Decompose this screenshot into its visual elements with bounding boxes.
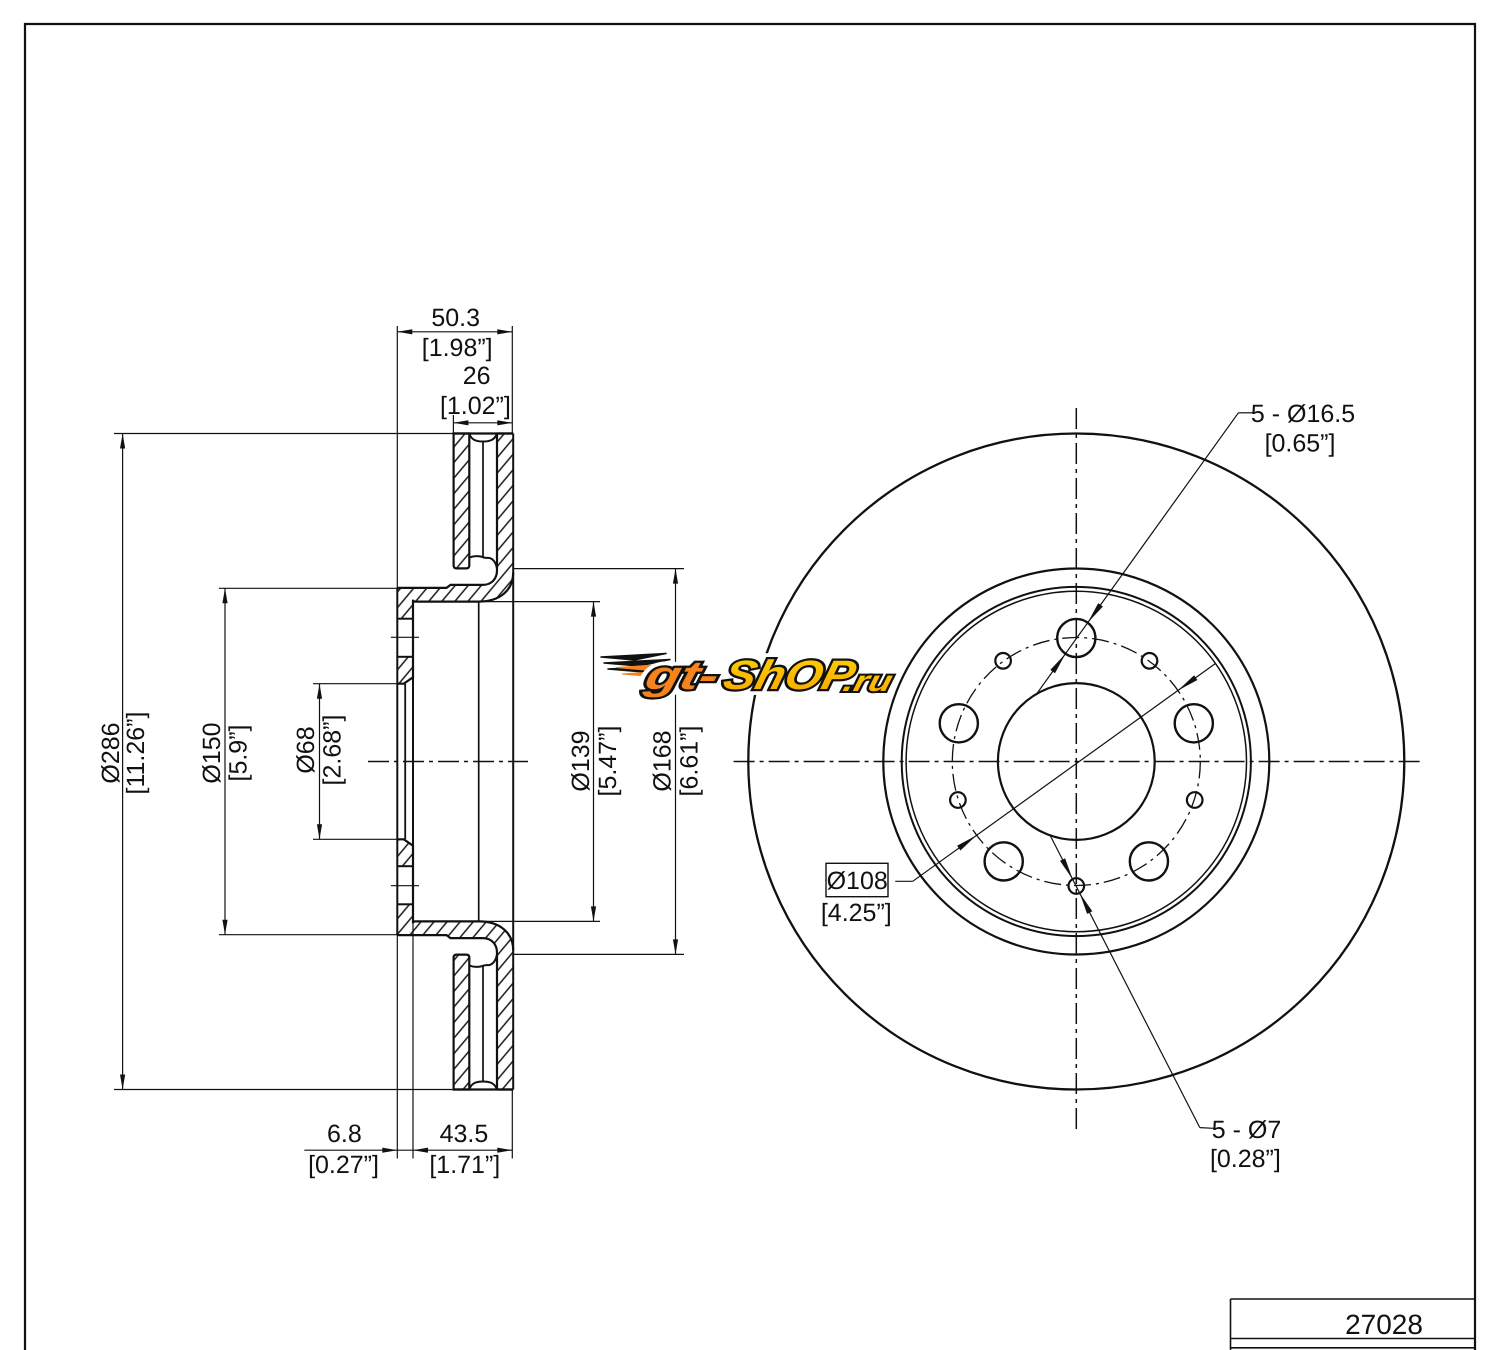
section bolt hole centre tick (lower)	[391, 885, 419, 887]
section vent vane silhouette line (upper)	[482, 442, 484, 557]
label Ø108 boxed	[826, 863, 888, 896]
svg-text:Ø68: Ø68	[292, 726, 320, 773]
svg-text:[11.26”]: [11.26”]	[122, 712, 150, 795]
svg-text:26: 26	[463, 362, 491, 390]
section hub flange inner face line	[412, 602, 414, 922]
section outboard pad hatched fill (upper)	[454, 434, 470, 569]
logo text gt-ShOP.ru	[640, 652, 900, 698]
svg-text:[2.68”]: [2.68”]	[319, 715, 347, 786]
svg-text:.ru: .ru	[840, 666, 896, 698]
front view small hole Ø7 at 342 deg	[1187, 792, 1203, 808]
front view bolt hole Ø16.5 at 90 deg	[1057, 619, 1095, 657]
logo speed lines	[601, 654, 681, 678]
svg-text:[1.98”]: [1.98”]	[422, 334, 493, 362]
front view outer circle Ø286	[748, 434, 1404, 1090]
svg-text:5 - Ø7: 5 - Ø7	[1212, 1116, 1281, 1144]
svg-text:[0.27”]: [0.27”]	[308, 1151, 379, 1179]
dimension Ø168 / [6.61”] band inner diameter	[513, 568, 684, 570]
dimension 26 / [1.02”] disc thickness	[452, 415, 454, 434]
section bore chamfer silhouette line	[404, 684, 406, 840]
section vent vane silhouette line (lower)	[482, 967, 484, 1082]
front view bolt hole Ø16.5 at 234 deg	[985, 842, 1023, 880]
front view braking band inner circle Ø168	[883, 569, 1269, 955]
svg-text:Ø150: Ø150	[198, 722, 226, 783]
svg-text:[0.65”]: [0.65”]	[1265, 430, 1336, 458]
svg-text:[4.25”]: [4.25”]	[821, 899, 892, 927]
front view small hole Ø7 at 198 deg	[950, 792, 966, 808]
front view bolt hole Ø16.5 at 306 deg	[1130, 842, 1168, 880]
front view centre bore circle Ø68	[998, 683, 1155, 840]
svg-text:[1.02”]: [1.02”]	[440, 392, 511, 420]
front view bolt hole Ø16.5 at 162 deg	[940, 704, 978, 742]
section bolt hole centre tick (upper)	[391, 636, 419, 638]
dimension 50.3 / [1.98”] overall width	[396, 326, 398, 588]
svg-text:[1.71”]: [1.71”]	[429, 1151, 500, 1179]
dimension Ø150 / [5.9”] hat diameter	[219, 587, 397, 589]
section hub flange segment below bolt hole hatched fill (upper)	[397, 657, 413, 684]
front view horizontal centre line	[734, 761, 1422, 763]
svg-text:[6.61”]: [6.61”]	[676, 726, 704, 797]
svg-text:Ø168: Ø168	[649, 730, 677, 791]
section outboard pad outline (upper)	[454, 434, 470, 569]
front view small hole Ø7 at 126 deg	[995, 653, 1011, 669]
section inboard pad + hat outline (upper)	[397, 434, 513, 684]
svg-text:ShOP: ShOP	[719, 652, 861, 698]
svg-text:Ø108: Ø108	[827, 867, 888, 895]
leader line for 5-Ø7 to bottom small hole	[1200, 1127, 1214, 1130]
svg-text:[5.47”]: [5.47”]	[594, 726, 622, 797]
svg-text:[5.9”]: [5.9”]	[225, 725, 253, 782]
svg-text:Ø139: Ø139	[567, 730, 595, 791]
section OD edge across vent (lower)	[454, 1088, 514, 1090]
svg-text:43.5: 43.5	[440, 1120, 489, 1148]
section bolt hole edge lines in flange (lower)	[397, 903, 413, 905]
front view bolt circle Ø108 dash-dot	[952, 638, 1200, 886]
front view bolt hole Ø16.5 at 18 deg	[1175, 704, 1213, 742]
section hat inner cylinder silhouette line	[478, 602, 480, 922]
svg-text:[0.28”]: [0.28”]	[1210, 1145, 1281, 1173]
svg-text:5 - Ø16.5: 5 - Ø16.5	[1251, 400, 1355, 428]
front view hat outer circle Ø150	[906, 591, 1246, 931]
section vent channel bottom curve (lower)	[469, 955, 497, 967]
front view small hole Ø7 at 270 deg	[1069, 878, 1085, 894]
section vent OD groove curve (lower)	[469, 1082, 497, 1090]
leader line for Ø108 bolt circle	[895, 880, 912, 882]
section vent OD groove curve (upper)	[469, 434, 497, 442]
section inboard pad + hat hatched fill (lower)	[397, 904, 513, 1089]
section OD edge across vent (upper)	[454, 432, 514, 434]
section hub flange outer face line	[396, 588, 398, 935]
dimension 6.8 / [0.27”] flange thickness	[396, 935, 398, 1158]
svg-text:gt-: gt-	[640, 654, 724, 698]
dimension Ø68 / [2.68”] centre bore	[313, 683, 397, 685]
section centre line	[368, 761, 528, 763]
section inboard pad + hat outline (lower)	[397, 839, 513, 1089]
dimension Ø286 / [11.26”] outer diameter	[114, 433, 454, 435]
leader line for 5-Ø16.5 to top bolt hole	[1238, 412, 1252, 414]
svg-text:Ø286: Ø286	[97, 722, 125, 783]
svg-text:50.3: 50.3	[431, 304, 480, 332]
front view vertical centre line	[1075, 408, 1077, 1129]
section inboard face silhouette line	[512, 434, 514, 1090]
section bolt hole edge lines in flange (upper)	[397, 618, 413, 620]
title block	[1231, 1298, 1476, 1300]
section inboard pad + hat hatched fill (upper)	[397, 434, 513, 619]
svg-text:6.8: 6.8	[327, 1120, 362, 1148]
front view small hole Ø7 at 54 deg	[1142, 653, 1158, 669]
dimension Ø139 / [5.47”]	[479, 601, 600, 603]
section hub flange segment hatched fill (lower)	[397, 839, 413, 866]
section outboard pad outline (lower)	[454, 955, 470, 1090]
section outboard pad hatched fill (lower)	[454, 955, 470, 1090]
svg-text:27028: 27028	[1345, 1309, 1423, 1340]
section vent channel bottom curve (upper)	[469, 556, 497, 568]
front view hat step circle	[902, 587, 1251, 936]
